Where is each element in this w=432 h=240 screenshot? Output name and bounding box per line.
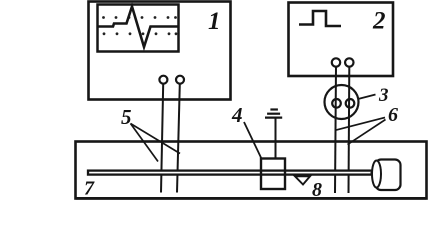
cylinder weight body <box>376 160 401 191</box>
leader line 5b <box>131 124 181 154</box>
wire W2 (right oscilloscope lead) <box>177 84 180 193</box>
waveform trace <box>98 7 179 48</box>
terminal T1a <box>159 76 167 84</box>
rod end nub <box>371 172 373 175</box>
leader line 6a <box>335 118 385 131</box>
plug pin right <box>346 99 355 108</box>
leader line 5a <box>131 124 159 162</box>
wire W3 (left generator lead) <box>335 67 336 193</box>
svg-text:6: 6 <box>388 104 398 126</box>
pulse symbol <box>299 11 341 26</box>
leader line 6b <box>348 120 386 145</box>
rod 7 <box>88 171 372 175</box>
wire W1 (left oscilloscope lead) <box>161 84 163 193</box>
svg-text:7: 7 <box>84 178 95 200</box>
terminal T2b <box>345 58 353 66</box>
svg-text:8: 8 <box>312 179 322 201</box>
screen graticule dots row 2 <box>103 32 178 35</box>
plug connector body 3 <box>325 85 359 119</box>
knife-edge support 8 <box>295 176 310 184</box>
oscilloscope box U1 <box>89 2 231 100</box>
svg-text:1: 1 <box>208 8 221 35</box>
svg-text:2: 2 <box>372 8 386 35</box>
terminal T1b <box>176 76 184 84</box>
screen graticule dots row 1 <box>102 16 177 19</box>
plug pin left <box>332 99 341 108</box>
cylinder front ellipse <box>372 161 381 188</box>
terminal T2a <box>332 58 340 66</box>
svg-text:3: 3 <box>378 85 389 106</box>
enclosure box (stand) <box>76 142 427 199</box>
svg-text:4: 4 <box>231 103 243 127</box>
ground symbol <box>265 110 282 159</box>
sensor box 4 <box>261 159 285 190</box>
svg-text:5: 5 <box>121 105 132 129</box>
wire W4 (right generator lead) <box>348 67 351 193</box>
leader line 4 <box>244 122 262 159</box>
oscilloscope screen <box>98 5 179 52</box>
leader line 3 <box>358 95 376 100</box>
pulse generator box U2 <box>289 3 394 77</box>
enclosure bottom edge emphasis <box>76 197 426 200</box>
